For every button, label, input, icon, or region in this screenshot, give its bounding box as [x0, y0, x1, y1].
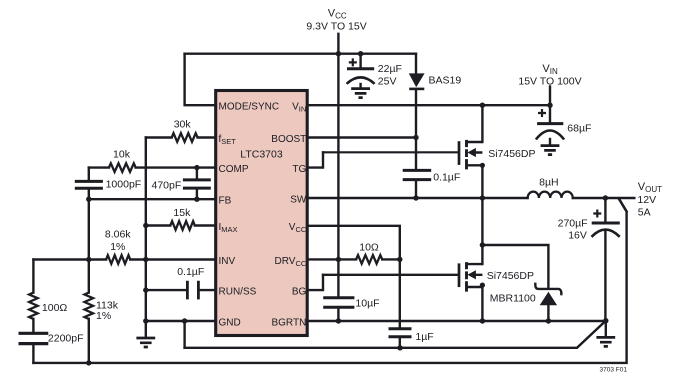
wire drain node to MBR1100: [482, 245, 548, 288]
wire TG jog: [308, 152, 324, 167]
wire SW down to drain node and bottom FET drain: [481, 198, 483, 264]
wire output ground lead: [605, 321, 607, 336]
capacitor C 1uF plates: [389, 329, 412, 337]
wire 100R to 2200pF lead: [32, 319, 34, 331]
svg-text:5A: 5A: [638, 206, 651, 218]
wire line B VOUT return: [33, 199, 626, 363]
capacitor C 2200pF plates: [19, 333, 49, 343]
svg-text:3703 F01: 3703 F01: [600, 367, 628, 374]
wire 270uF bottom lead: [604, 230, 606, 321]
wire MBR1100 anode lead: [547, 305, 549, 321]
resistor R 8.06k 1%: [106, 255, 130, 264]
resistor R 10k: [109, 163, 136, 172]
wire MODE/SYNC left jog: [185, 54, 216, 105]
capacitor C 68uF polarized plate and arc: [537, 122, 563, 125]
svg-text:VIN: VIN: [542, 63, 558, 76]
svg-text:470pF: 470pF: [152, 179, 182, 191]
resistor R 100ohm: [29, 293, 38, 319]
wire 22uF to ground lead: [359, 84, 361, 88]
wire SW to VOUT: [573, 197, 635, 199]
ground symbol output: [596, 337, 615, 346]
wire fSET row: [146, 136, 216, 138]
svg-text:SW: SW: [290, 195, 307, 206]
wire 1000pF leads: [88, 168, 90, 200]
svg-text:FB: FB: [219, 196, 232, 207]
wire bottom FET source to BGRTN: [481, 285, 483, 321]
resistor R 10ohm: [356, 255, 382, 264]
svg-text:22µF: 22µF: [378, 63, 402, 75]
wire left branch down to 100R: [32, 260, 34, 293]
ground symbol signal ground x=145.8: [136, 338, 155, 347]
wire TG run to top gate: [323, 151, 458, 153]
capacitor C 0.1uF RUN/SS plates: [187, 281, 198, 300]
capacitor C 10uF plates: [323, 298, 354, 307]
svg-text:0.1µF: 0.1µF: [177, 266, 204, 278]
ground symbol below 22uF: [351, 89, 370, 98]
svg-text:Si7456DP: Si7456DP: [488, 148, 535, 160]
wire BGRTN rail: [308, 320, 606, 322]
svg-text:15V TO 100V: 15V TO 100V: [518, 76, 581, 88]
capacitor C 22uF polarized plate and arc: [347, 67, 374, 70]
capacitor C 470pF plates: [183, 180, 211, 188]
resistor R 30k: [172, 133, 198, 142]
wire ground-net vertical x=145.8: [145, 138, 147, 337]
inductor L1 8uH: [528, 192, 573, 198]
svg-text:TG: TG: [292, 164, 306, 175]
wire line A ground return with diagonal: [185, 321, 606, 348]
wire RUN/SS row: [146, 289, 216, 291]
svg-text:MODE/SYNC: MODE/SYNC: [219, 102, 280, 113]
wire FB node vertical to 113k: [88, 199, 90, 292]
wire VIN input drop: [549, 87, 551, 106]
svg-text:INV: INV: [219, 256, 236, 267]
svg-text:BGRTN: BGRTN: [271, 318, 306, 329]
wire VCC top rail y=53.7: [185, 53, 416, 55]
svg-text:VOUT: VOUT: [638, 181, 662, 194]
wire FB row: [89, 198, 216, 200]
plus sign 270uF: [593, 210, 601, 218]
svg-text:10Ω: 10Ω: [359, 241, 379, 253]
wire VIN row: [308, 104, 551, 106]
wire BG jog: [308, 275, 324, 290]
svg-text:LTC3703: LTC3703: [240, 148, 283, 160]
op-amp/controller IC U1 LTC3703 body: [216, 91, 308, 336]
wire GND row: [146, 320, 216, 322]
svg-text:25V: 25V: [378, 76, 397, 88]
svg-text:GND: GND: [219, 318, 241, 329]
wire 68uF to ground lead: [549, 139, 551, 144]
transistor Q2 Si7456DP bottom MOSFET: [459, 262, 482, 292]
plus sign 68uF: [538, 109, 546, 117]
svg-text:16V: 16V: [568, 230, 587, 242]
svg-text:15k: 15k: [173, 207, 191, 219]
wire 10uF bottom lead: [337, 309, 339, 321]
svg-text:270µF: 270µF: [558, 217, 588, 229]
svg-text:BG: BG: [292, 287, 307, 298]
svg-text:RUN/SS: RUN/SS: [219, 287, 257, 298]
svg-text:COMP: COMP: [219, 164, 249, 175]
wire DRVCC row with 10R gap: [308, 258, 400, 260]
svg-text:8.06k: 8.06k: [105, 228, 131, 240]
wire 68uF top lead: [549, 105, 551, 122]
svg-text:VCC: VCC: [328, 8, 347, 21]
wire top FET drain to VIN row: [481, 105, 483, 142]
svg-text:68µF: 68µF: [567, 123, 591, 135]
svg-text:BAS19: BAS19: [429, 74, 462, 86]
wire 113k bottom lead: [88, 319, 90, 363]
ground symbol below 68uF: [541, 146, 560, 155]
wire GND drop to line A: [183, 321, 185, 348]
wire 270uF top lead: [604, 198, 606, 222]
svg-text:1µF: 1µF: [415, 331, 433, 343]
wire 470pF leads: [196, 168, 198, 200]
svg-text:12V: 12V: [637, 194, 656, 206]
svg-text:10k: 10k: [113, 148, 131, 160]
resistor R 113k 1%: [85, 293, 94, 319]
svg-text:9.3V TO 15V: 9.3V TO 15V: [306, 20, 366, 32]
svg-text:0.1µF: 0.1µF: [433, 171, 460, 183]
svg-text:30k: 30k: [174, 118, 192, 130]
svg-text:10µF: 10µF: [355, 297, 379, 309]
wire 2200pF bottom lead to line B: [32, 345, 34, 363]
wire COMP row: [89, 166, 216, 168]
svg-text:Si7456DP: Si7456DP: [487, 270, 534, 282]
svg-text:MBR1100: MBR1100: [490, 292, 536, 304]
svg-text:100Ω: 100Ω: [42, 302, 68, 314]
capacitor C 270uF polarized plate and arc: [592, 222, 620, 225]
wire BOOST row: [308, 136, 417, 138]
wire BAS19 vertical: [415, 54, 417, 138]
diode D MBR1100 schottky: [535, 283, 561, 306]
svg-text:BOOST: BOOST: [271, 134, 306, 145]
capacitor C 1000pF plates: [75, 181, 103, 188]
svg-text:1%: 1%: [110, 241, 125, 253]
wire IMAX row: [146, 224, 216, 226]
wire VCC supply vertical: [337, 34, 339, 297]
wire VOUT diagonal branch: [619, 199, 626, 211]
resistor R 15k: [170, 221, 195, 230]
svg-text:8µH: 8µH: [539, 176, 558, 188]
plus sign 22uF: [349, 58, 357, 66]
diode D BAS19: [409, 73, 425, 89]
svg-text:1000pF: 1000pF: [106, 178, 142, 190]
svg-text:2200pF: 2200pF: [48, 332, 84, 344]
wire boost cap leads: [415, 138, 417, 199]
wire 22uF top lead: [359, 54, 361, 68]
wire BG run to bottom gate: [323, 274, 458, 276]
capacitor C 0.1uF boost plates: [403, 170, 432, 179]
wire VCC pin row: [308, 226, 400, 260]
transistor Q1 Si7456DP top MOSFET: [459, 140, 482, 170]
wire VCCpin 1uF vertical: [399, 259, 401, 347]
svg-text:1%: 1%: [96, 310, 111, 322]
wire top FET source to SW: [481, 165, 483, 198]
wire SW row: [308, 197, 528, 199]
wire INV row: [33, 258, 216, 260]
